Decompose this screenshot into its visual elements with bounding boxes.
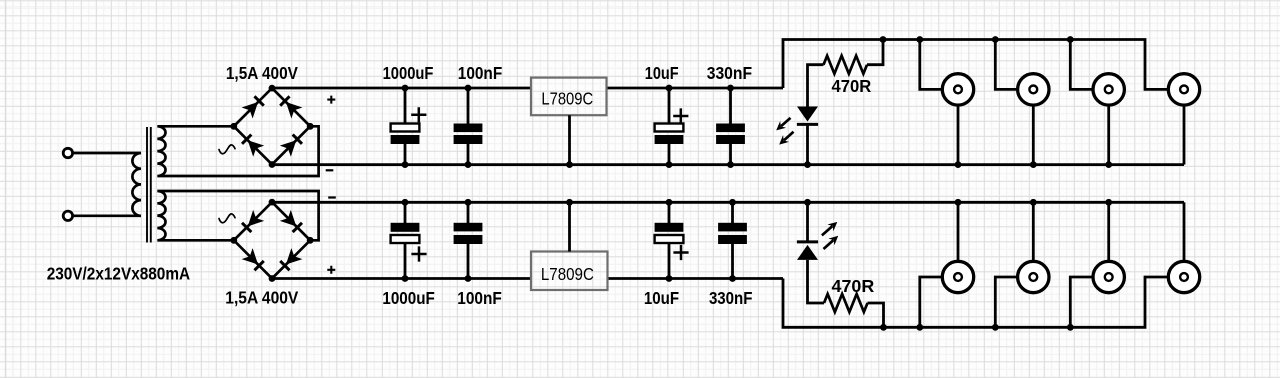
svg-text:470R: 470R bbox=[832, 276, 875, 296]
svg-text:10uF: 10uF bbox=[644, 288, 679, 308]
svg-text:100nF: 100nF bbox=[458, 63, 503, 83]
svg-text:330nF: 330nF bbox=[707, 63, 753, 83]
svg-text:100nF: 100nF bbox=[457, 288, 502, 308]
svg-text:330nF: 330nF bbox=[709, 288, 753, 308]
svg-text:L7809C: L7809C bbox=[541, 89, 593, 109]
svg-text:1000uF: 1000uF bbox=[382, 288, 435, 308]
svg-text:L7809C: L7809C bbox=[541, 264, 594, 284]
svg-text:1,5A 400V: 1,5A 400V bbox=[226, 63, 298, 83]
svg-text:470R: 470R bbox=[832, 76, 872, 96]
svg-text:1000uF: 1000uF bbox=[383, 63, 434, 83]
svg-text:230V/2x12Vx880mA: 230V/2x12Vx880mA bbox=[47, 263, 191, 283]
svg-text:1,5A 400V: 1,5A 400V bbox=[225, 288, 298, 308]
svg-text:10uF: 10uF bbox=[645, 63, 679, 83]
